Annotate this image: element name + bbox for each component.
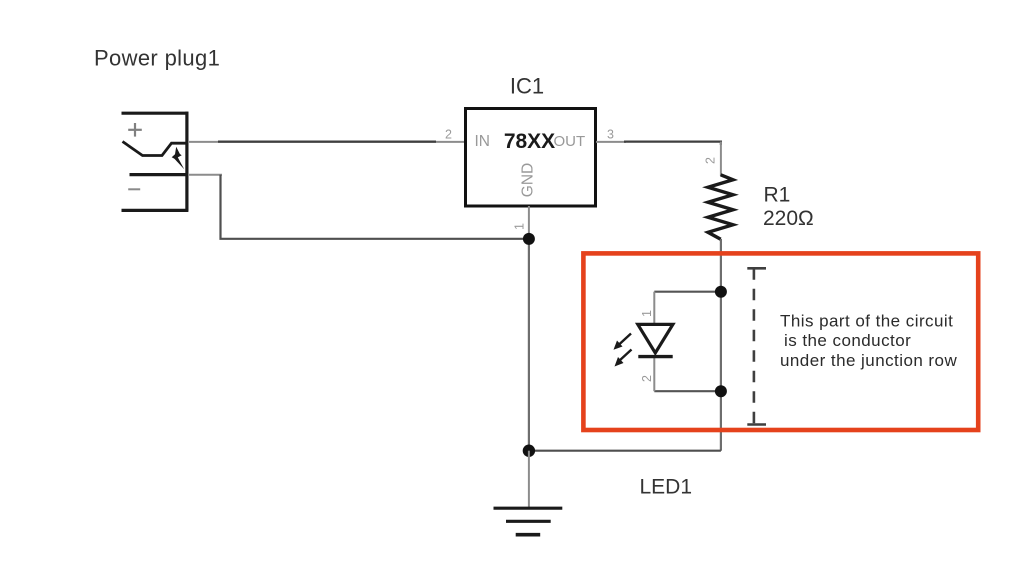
ground wire <box>528 451 530 508</box>
svg-text:GND: GND <box>520 163 537 197</box>
wire IC OUT to resistor <box>596 141 626 143</box>
IC1 box <box>466 109 596 207</box>
IC GND pin stub <box>528 206 530 239</box>
svg-text:1: 1 <box>640 310 654 317</box>
svg-text:This part of the circuit: This part of the circuit <box>780 312 953 331</box>
dashed measure line top tee <box>747 267 766 270</box>
resistor R1 zigzag <box>708 175 733 239</box>
svg-text:IN: IN <box>475 133 491 150</box>
power plug lightning bolt <box>172 147 185 169</box>
wire plug- down and right to GND node <box>188 174 222 176</box>
LED top wire <box>654 291 721 293</box>
svg-text:LED1: LED1 <box>640 475 693 498</box>
junction dot resistor-LED top <box>715 286 727 298</box>
LED cathode bar <box>638 355 672 358</box>
power plug J1 body <box>122 112 189 211</box>
svg-text:R1: R1 <box>764 184 791 207</box>
dashed measure line bottom tee <box>747 423 766 426</box>
svg-text:1: 1 <box>513 223 527 230</box>
svg-text:3: 3 <box>607 128 614 142</box>
junction dot under IC <box>523 233 535 245</box>
LED anode stub <box>653 292 655 325</box>
svg-text:78XX: 78XX <box>504 130 555 153</box>
svg-text:220Ω: 220Ω <box>763 207 814 230</box>
LED bottom wire <box>654 390 721 392</box>
LED light arrow 1 <box>614 334 632 350</box>
junction dot ground node <box>523 445 535 457</box>
resistor pin stub top <box>720 142 722 176</box>
junction dot LED bottom <box>715 385 727 397</box>
wire plug+ to IC IN <box>188 141 465 143</box>
wire GND node vertical (IC junction to ground junction) <box>528 239 530 451</box>
LED light arrow 2 <box>615 350 632 367</box>
bottom wire to ground node <box>529 450 721 452</box>
svg-text:2: 2 <box>445 128 452 142</box>
main vertical wire resistor to bottom <box>720 239 722 451</box>
power plug switch arm <box>123 142 187 156</box>
svg-text:under the junction row: under the junction row <box>780 351 957 370</box>
svg-text:2: 2 <box>704 157 718 164</box>
power plug minus mark <box>128 188 140 190</box>
svg-text:is the conductor: is the conductor <box>784 331 911 350</box>
power plug plus mark <box>128 123 142 137</box>
svg-text:Power plug1: Power plug1 <box>94 46 220 71</box>
red highlight box <box>583 253 978 430</box>
svg-text:2: 2 <box>640 375 654 382</box>
svg-text:IC1: IC1 <box>510 74 544 99</box>
dashed measure line <box>753 268 756 424</box>
svg-text:OUT: OUT <box>554 133 586 150</box>
ground symbol <box>494 508 563 535</box>
LED triangle <box>638 324 673 353</box>
LED cathode stub <box>653 357 655 392</box>
